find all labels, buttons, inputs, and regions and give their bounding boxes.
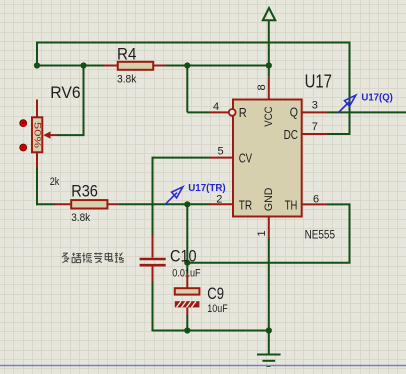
wire TR node down to C9	[186, 204, 188, 273]
wire GND pin down	[268, 237, 270, 331]
svg-text:50%: 50%	[31, 122, 42, 149]
svg-text:3.8k: 3.8k	[71, 212, 90, 224]
svg-text:GND: GND	[263, 188, 275, 212]
wire node row left segment	[36, 65, 104, 67]
svg-text:1: 1	[256, 230, 268, 236]
junction node TR/C9	[184, 201, 190, 207]
svg-text:4: 4	[213, 101, 219, 113]
svg-text:7: 7	[312, 121, 318, 133]
resistor R36	[55, 200, 119, 208]
capacitor C10	[140, 236, 166, 282]
pin 6 TH lead	[302, 203, 327, 205]
svg-text:R4: R4	[117, 44, 136, 63]
pot terminal marker bottom	[20, 144, 27, 151]
svg-text:C10: C10	[170, 246, 197, 265]
capacitor C9 (polarised)	[175, 273, 200, 315]
pin 2 TR lead	[210, 203, 233, 205]
svg-text:U17: U17	[305, 71, 332, 91]
wire node row right segment to VCC pin	[166, 65, 269, 67]
wire wiper branch horizontal	[57, 134, 84, 136]
junction node TH link	[184, 260, 190, 266]
junction node A (pot top / R4 / rail)	[34, 62, 40, 68]
wire left drop to node	[36, 43, 38, 66]
wire TH link horizontal	[187, 262, 350, 264]
svg-text:2k: 2k	[50, 176, 60, 188]
svg-text:VCC: VCC	[263, 106, 275, 126]
annotation 多谐振荡电路 (drawn strokes)	[62, 253, 124, 263]
wire Q output	[327, 111, 406, 113]
svg-text:TR: TR	[239, 197, 252, 212]
junction node ground	[266, 327, 272, 333]
junction node wiper branch	[80, 62, 86, 68]
junction node C9 bottom	[184, 327, 190, 333]
svg-text:R36: R36	[71, 181, 98, 200]
potentiometer RV6	[32, 100, 57, 169]
junction node VCC pin	[266, 62, 272, 68]
wire top rail (R4.left/pot net to DC)	[36, 42, 351, 44]
power symbol VCC	[263, 8, 276, 77]
wire C10 bottom to rail	[152, 282, 154, 332]
wire reset branch horizontal	[187, 111, 209, 113]
svg-text:U17(Q): U17(Q)	[361, 92, 393, 103]
junction node reset branch	[184, 62, 190, 68]
pin 7 DC lead	[302, 133, 327, 135]
pin 3 Q lead	[302, 111, 327, 113]
svg-text:NE555: NE555	[305, 227, 336, 241]
svg-text:C9: C9	[207, 284, 224, 303]
svg-text:Q: Q	[290, 104, 298, 119]
svg-text:5: 5	[218, 146, 224, 158]
op IC U17 NE555 body	[233, 100, 302, 217]
svg-text:8: 8	[256, 84, 268, 90]
wire CV horizontal	[153, 157, 210, 159]
probe U17(Q)	[338, 95, 356, 113]
pin 1 GND lead	[268, 217, 270, 238]
svg-text:3: 3	[312, 100, 318, 112]
wire wiper branch vertical	[83, 66, 85, 137]
wire DC horizontal	[327, 133, 350, 135]
pin 4 R lead with bubble	[210, 109, 236, 116]
wire DC vertical from top rail	[349, 42, 351, 136]
wire TR row left	[36, 203, 55, 205]
svg-text:6: 6	[313, 194, 319, 206]
sheet border line	[0, 365, 406, 367]
wire pot bottom to TR row	[36, 168, 38, 205]
svg-text:3.8k: 3.8k	[117, 74, 137, 86]
wire reset branch vertical	[186, 66, 188, 113]
svg-text:2: 2	[216, 194, 222, 206]
wire TH horizontal	[327, 203, 350, 205]
resistor R4	[104, 62, 166, 70]
svg-text:R: R	[239, 105, 247, 120]
ground	[257, 331, 281, 367]
wire TR row middle	[119, 203, 210, 205]
wire TH vertical	[349, 203, 351, 262]
wire bottom rail	[152, 330, 269, 332]
pin 8 VCC lead	[268, 77, 270, 100]
svg-text:CV: CV	[239, 150, 253, 165]
wire C9 bottom to rail	[186, 315, 188, 331]
pot terminal marker top	[20, 120, 27, 127]
pin 5 CV lead	[210, 157, 234, 159]
probe U17(TR)	[165, 187, 183, 205]
svg-text:TH: TH	[285, 197, 298, 212]
wire CV to C10 top	[152, 157, 154, 236]
svg-text:U17(TR): U17(TR)	[188, 183, 226, 194]
svg-text:DC: DC	[284, 127, 298, 142]
svg-text:10uF: 10uF	[207, 303, 228, 315]
svg-text:RV6: RV6	[50, 83, 80, 102]
